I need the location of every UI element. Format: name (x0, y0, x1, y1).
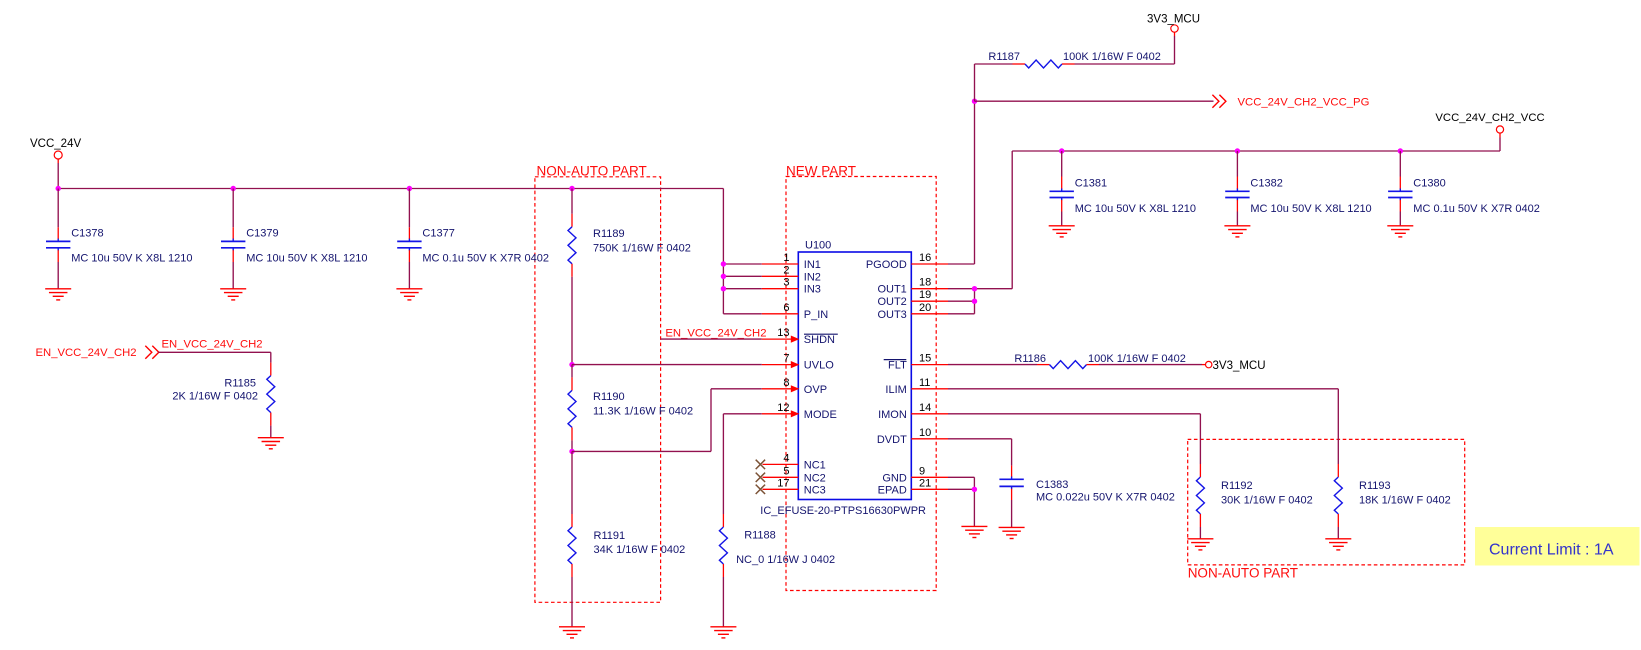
resistor R1185 (270, 363, 272, 376)
wire C1378 bottom (57, 262, 59, 289)
junction IN1 (721, 261, 726, 266)
overline FLT (884, 359, 907, 361)
svg-text:NC_0 1/16W J 0402: NC_0 1/16W J 0402 (736, 554, 835, 566)
wire VCC_24V bus (58, 188, 723, 190)
no-connect X pin 4 (756, 460, 765, 469)
wire P_IN stub (723, 313, 761, 315)
svg-text:C1383: C1383 (1036, 479, 1068, 491)
ground R1185 (258, 437, 284, 439)
junction bus R1189 (569, 186, 574, 191)
wire IN2 stub (723, 275, 761, 277)
ground C1382 (1224, 225, 1250, 227)
ground C1379 (220, 288, 246, 290)
wire OVP to pin 8 (711, 388, 762, 390)
svg-text:R1189: R1189 (593, 228, 625, 240)
resistor R1186 (1037, 364, 1050, 366)
wire C1379 top (232, 189, 234, 228)
wire PGOOD riser (974, 101, 976, 264)
wire C1379 bottom (232, 262, 234, 289)
junction PGOOD (972, 99, 977, 104)
svg-text:P_IN: P_IN (804, 309, 829, 321)
wire MODE to pin 12 (723, 413, 761, 415)
pin 5 stub (NC) (763, 476, 799, 478)
junction OUT2 (972, 299, 977, 304)
wire EN to R1185 (158, 351, 270, 353)
svg-text:UVLO: UVLO (804, 360, 834, 372)
wire IMON drop (1199, 414, 1201, 464)
ground C1377 (396, 288, 422, 290)
resistor R1187 (1013, 63, 1026, 65)
svg-text:OVP: OVP (804, 384, 827, 396)
svg-text:3V3_MCU: 3V3_MCU (1213, 360, 1266, 372)
no-connect X pin 5 (756, 473, 765, 482)
svg-text:C1379: C1379 (246, 227, 278, 239)
junction EPAD (972, 487, 977, 492)
svg-text:MC 0.1u 50V K X7R 0402: MC 0.1u 50V K X7R 0402 (1413, 203, 1540, 215)
svg-text:EPAD: EPAD (878, 484, 907, 496)
wire GND drop (973, 477, 975, 526)
wire OUT1 right (948, 288, 1012, 290)
svg-text:IC_EFUSE-20-PTPS16630PWPR: IC_EFUSE-20-PTPS16630PWPR (760, 505, 926, 517)
pin 19 stub (911, 300, 948, 302)
svg-text:DVDT: DVDT (877, 434, 907, 446)
wire C1382 top (1236, 151, 1238, 177)
svg-text:C1380: C1380 (1413, 177, 1445, 189)
svg-text:9: 9 (919, 465, 925, 477)
wire OUT riser (1011, 151, 1013, 289)
svg-text:IN1: IN1 (804, 259, 821, 271)
wire R1193 to ground (1337, 527, 1339, 539)
svg-text:U100: U100 (805, 240, 831, 252)
off-page connector arrow VCC_24V_CH2_VCC_PG (1219, 95, 1226, 108)
capacitor C1381 (1061, 177, 1063, 189)
ground C1381 (1049, 225, 1075, 227)
svg-text:3V3_MCU: 3V3_MCU (1147, 14, 1200, 26)
wire UVLO node to pin 7 (572, 364, 762, 366)
dashed box NON-AUTO PART (left) (535, 177, 661, 603)
wire R1187 to 3V3_MCU (1075, 63, 1175, 65)
svg-text:15: 15 (919, 353, 931, 365)
pin 20 stub (911, 313, 948, 315)
wire OUT3 right (948, 313, 975, 315)
pin 15 stub (911, 364, 948, 366)
junction C1380 (1398, 148, 1403, 153)
wire C1377 top (408, 189, 410, 228)
wire R1190 to OVP node (571, 440, 573, 451)
wire C1378 top (57, 189, 59, 228)
capacitor C1379 (232, 227, 234, 239)
svg-text:VCC_24V: VCC_24V (30, 138, 81, 150)
svg-text:1: 1 (783, 252, 789, 264)
svg-text:Current Limit : 1A: Current Limit : 1A (1489, 542, 1614, 559)
note Current Limit : 1A (1475, 527, 1640, 566)
svg-text:ILIM: ILIM (885, 384, 906, 396)
svg-text:11.3K 1/16W F 0402: 11.3K 1/16W F 0402 (593, 406, 693, 418)
svg-text:R1191: R1191 (594, 530, 626, 542)
svg-text:12: 12 (777, 402, 789, 414)
wire OVP riser (710, 389, 712, 452)
ground C1380 (1387, 225, 1413, 227)
svg-text:SHDN: SHDN (804, 334, 835, 346)
wire port drop VCC_24V_CH2_VCC (1499, 138, 1501, 152)
input arrow UVLO (791, 361, 800, 368)
svg-text:EN_VCC_24V_CH2: EN_VCC_24V_CH2 (36, 347, 137, 359)
svg-text:6: 6 (783, 302, 789, 314)
resistor R1192 (1199, 464, 1201, 477)
svg-text:18K 1/16W F 0402: 18K 1/16W F 0402 (1359, 495, 1451, 507)
svg-text:21: 21 (919, 477, 931, 489)
power port 3V3_MCU (top) (1171, 25, 1178, 32)
power port VCC_24V_CH2_VCC (1496, 126, 1503, 133)
svg-text:4: 4 (783, 452, 789, 464)
junction UVLO node (569, 362, 574, 367)
svg-text:7: 7 (783, 353, 789, 365)
ground R1193 (1325, 538, 1351, 540)
wire C1380 bottom (1399, 212, 1401, 226)
pin 10 stub (911, 438, 948, 440)
svg-text:VCC_24V_CH2_VCC_PG: VCC_24V_CH2_VCC_PG (1238, 96, 1370, 108)
svg-text:R1187: R1187 (988, 51, 1020, 63)
svg-text:R1192: R1192 (1221, 480, 1253, 492)
wire ILIM right (948, 388, 1338, 390)
svg-text:5: 5 (783, 465, 789, 477)
wire VCC_24V down (57, 159, 59, 163)
svg-text:MC 0.022u 50V K X7R 0402: MC 0.022u 50V K X7R 0402 (1036, 491, 1175, 503)
input arrow MODE (791, 410, 800, 417)
wire R1192 to ground (1199, 527, 1201, 539)
pin 12 stub (762, 413, 799, 415)
wire PGOOD right (948, 263, 975, 265)
wire DVDT right (948, 438, 1012, 440)
overline SHDN (804, 333, 838, 335)
svg-text:2K 1/16W F 0402: 2K 1/16W F 0402 (172, 390, 258, 402)
pin 13 stub (762, 338, 799, 340)
junction IN3 (721, 286, 726, 291)
svg-text:PGOOD: PGOOD (866, 259, 907, 271)
junction IN2 (721, 274, 726, 279)
junction OUT1 (972, 286, 977, 291)
dashed box NEW PART (786, 177, 936, 591)
svg-text:NEW PART: NEW PART (786, 163, 856, 178)
svg-text:10: 10 (919, 427, 931, 439)
dashed box NON-AUTO PART (right) (1188, 439, 1465, 565)
wire OUT2 right (948, 300, 975, 302)
wire C1380 top (1399, 151, 1401, 177)
junction C1381 (1059, 148, 1064, 153)
svg-text:18: 18 (919, 277, 931, 289)
svg-text:R1186: R1186 (1014, 353, 1046, 365)
wire R1190 to R1191 (571, 451, 573, 514)
wire R1189 to UVLO node (571, 277, 573, 365)
svg-text:11: 11 (919, 377, 930, 389)
wire PGOOD to off-page arrow (975, 100, 1214, 102)
resistor R1189 (571, 214, 573, 227)
wire PGOOD up to R1187 (974, 64, 976, 101)
svg-text:14: 14 (919, 402, 931, 414)
wire R1189 to R1190 (571, 365, 573, 378)
resistor R1193 (1337, 464, 1339, 477)
wire ILIM drop (1337, 389, 1339, 464)
svg-text:VCC_24V_CH2_VCC: VCC_24V_CH2_VCC (1435, 112, 1544, 124)
wire IMON right (948, 413, 1200, 415)
resistor R1190 (571, 377, 573, 390)
wire C1381 bottom (1061, 212, 1063, 226)
power port VCC_24V (54, 151, 62, 159)
svg-text:C1382: C1382 (1250, 177, 1282, 189)
wire EN_VCC_24V_CH2 to pin 13 (661, 338, 762, 340)
svg-text:16: 16 (919, 252, 931, 264)
wire MODE down to R1188 (722, 414, 724, 514)
ground R1188 (710, 626, 736, 628)
svg-text:8: 8 (783, 377, 789, 389)
ground R1192 (1187, 538, 1213, 540)
svg-text:NON-AUTO PART: NON-AUTO PART (537, 163, 647, 178)
svg-text:100K 1/16W F 0402: 100K 1/16W F 0402 (1063, 51, 1161, 63)
capacitor C1377 (408, 227, 410, 239)
svg-text:750K 1/16W F 0402: 750K 1/16W F 0402 (593, 243, 691, 255)
junction C1382 (1235, 148, 1240, 153)
svg-text:OUT2: OUT2 (877, 296, 906, 308)
svg-text:C1381: C1381 (1075, 177, 1107, 189)
wire IN1 stub (723, 263, 761, 265)
wire EPAD right (948, 488, 974, 490)
wire DVDT drop (1011, 439, 1013, 466)
svg-text:IMON: IMON (878, 409, 907, 421)
pin 7 stub (762, 364, 799, 366)
wire OUT tie vertical (974, 289, 976, 314)
svg-text:34K 1/16W F 0402: 34K 1/16W F 0402 (594, 544, 686, 556)
svg-text:NC2: NC2 (804, 472, 826, 484)
input arrow OVP (791, 385, 800, 392)
pin 3 stub (762, 288, 799, 290)
no-connect X pin 17 (756, 485, 765, 494)
pin 9 stub (911, 476, 948, 478)
junction bus C1377 (407, 186, 412, 191)
ground R1191 (559, 626, 585, 628)
pin 11 stub (911, 388, 948, 390)
wire R1188 to ground (722, 577, 724, 627)
svg-text:R1188: R1188 (744, 530, 776, 542)
pin 16 stub (911, 263, 948, 265)
capacitor C1383 (1011, 466, 1013, 477)
svg-text:NC3: NC3 (804, 484, 826, 496)
svg-text:C1377: C1377 (422, 227, 454, 239)
svg-text:30K 1/16W F 0402: 30K 1/16W F 0402 (1221, 495, 1313, 507)
svg-text:MC 10u 50V K X8L 1210: MC 10u 50V K X8L 1210 (1250, 203, 1371, 215)
svg-text:17: 17 (777, 477, 789, 489)
input arrow SHDN (791, 336, 800, 343)
svg-text:MODE: MODE (804, 409, 837, 421)
pin 17 stub (NC) (763, 488, 799, 490)
junction OVP node (569, 449, 574, 454)
svg-text:100K 1/16W F 0402: 100K 1/16W F 0402 (1088, 353, 1186, 365)
junction bus C1378 (56, 186, 61, 191)
wire R1191 to ground (571, 577, 573, 627)
svg-text:NON-AUTO PART: NON-AUTO PART (1188, 565, 1298, 580)
svg-text:FLT: FLT (888, 360, 907, 372)
wire C1383 to ground (1011, 500, 1013, 527)
wire R1186 to 3V3_MCU (1099, 364, 1202, 366)
junction bus C1379 (231, 186, 236, 191)
wire OVP node right (572, 450, 711, 452)
svg-text:19: 19 (919, 289, 931, 301)
wire bus to R1189 (571, 189, 573, 214)
svg-text:GND: GND (882, 472, 907, 484)
capacitor C1378 (57, 227, 59, 239)
svg-text:R1193: R1193 (1359, 480, 1391, 492)
svg-text:IN2: IN2 (804, 271, 821, 283)
pin 21 stub (911, 488, 948, 490)
svg-text:IN3: IN3 (804, 284, 821, 296)
capacitor C1382 (1236, 177, 1238, 189)
svg-text:3: 3 (783, 277, 789, 289)
ground GND/EPAD (961, 525, 987, 527)
pin 2 stub (762, 275, 799, 277)
wire IN3 stub (723, 288, 761, 290)
pin 8 stub (762, 388, 799, 390)
ground C1383 (999, 526, 1025, 528)
ground C1378 (45, 288, 71, 290)
capacitor C1380 (1399, 177, 1401, 189)
power port 3V3_MCU (right) (1206, 361, 1212, 367)
pin 4 stub (NC) (763, 463, 799, 465)
svg-text:NC1: NC1 (804, 459, 826, 471)
resistor R1188 (722, 514, 724, 527)
IC U100 body (798, 252, 911, 500)
wire R1185 to ground (270, 426, 272, 438)
svg-text:R1185: R1185 (224, 378, 256, 390)
resistor R1191 (571, 514, 573, 527)
svg-text:2: 2 (783, 264, 789, 276)
wire VCC_24V_CH2_VCC bus (1012, 150, 1500, 152)
svg-text:C1378: C1378 (71, 227, 103, 239)
svg-text:MC 10u 50V K X8L 1210: MC 10u 50V K X8L 1210 (71, 253, 192, 265)
wire C1382 bottom (1236, 212, 1238, 226)
wire IN drop (722, 189, 724, 314)
wire FLT right (948, 364, 1037, 366)
wire C1377 bottom (408, 262, 410, 289)
svg-text:OUT3: OUT3 (877, 309, 906, 321)
svg-text:R1190: R1190 (593, 391, 625, 403)
svg-text:13: 13 (777, 327, 789, 339)
svg-text:EN_VCC_24V_CH2: EN_VCC_24V_CH2 (665, 327, 766, 339)
svg-text:OUT1: OUT1 (877, 284, 906, 296)
svg-text:20: 20 (919, 302, 931, 314)
svg-text:MC 10u 50V K X8L 1210: MC 10u 50V K X8L 1210 (246, 253, 367, 265)
off-page connector arrow EN_VCC_24V_CH2 (152, 346, 159, 359)
pin 18 stub (911, 288, 948, 290)
wire GND right (948, 476, 974, 478)
svg-text:EN_VCC_24V_CH2: EN_VCC_24V_CH2 (162, 339, 263, 351)
pin 1 stub (762, 263, 799, 265)
pin 6 stub (762, 313, 799, 315)
pin 14 stub (911, 413, 948, 415)
svg-text:MC 0.1u 50V K X7R 0402: MC 0.1u 50V K X7R 0402 (422, 253, 549, 265)
wire C1381 top (1061, 151, 1063, 177)
svg-text:MC 10u 50V K X8L 1210: MC 10u 50V K X8L 1210 (1075, 203, 1196, 215)
